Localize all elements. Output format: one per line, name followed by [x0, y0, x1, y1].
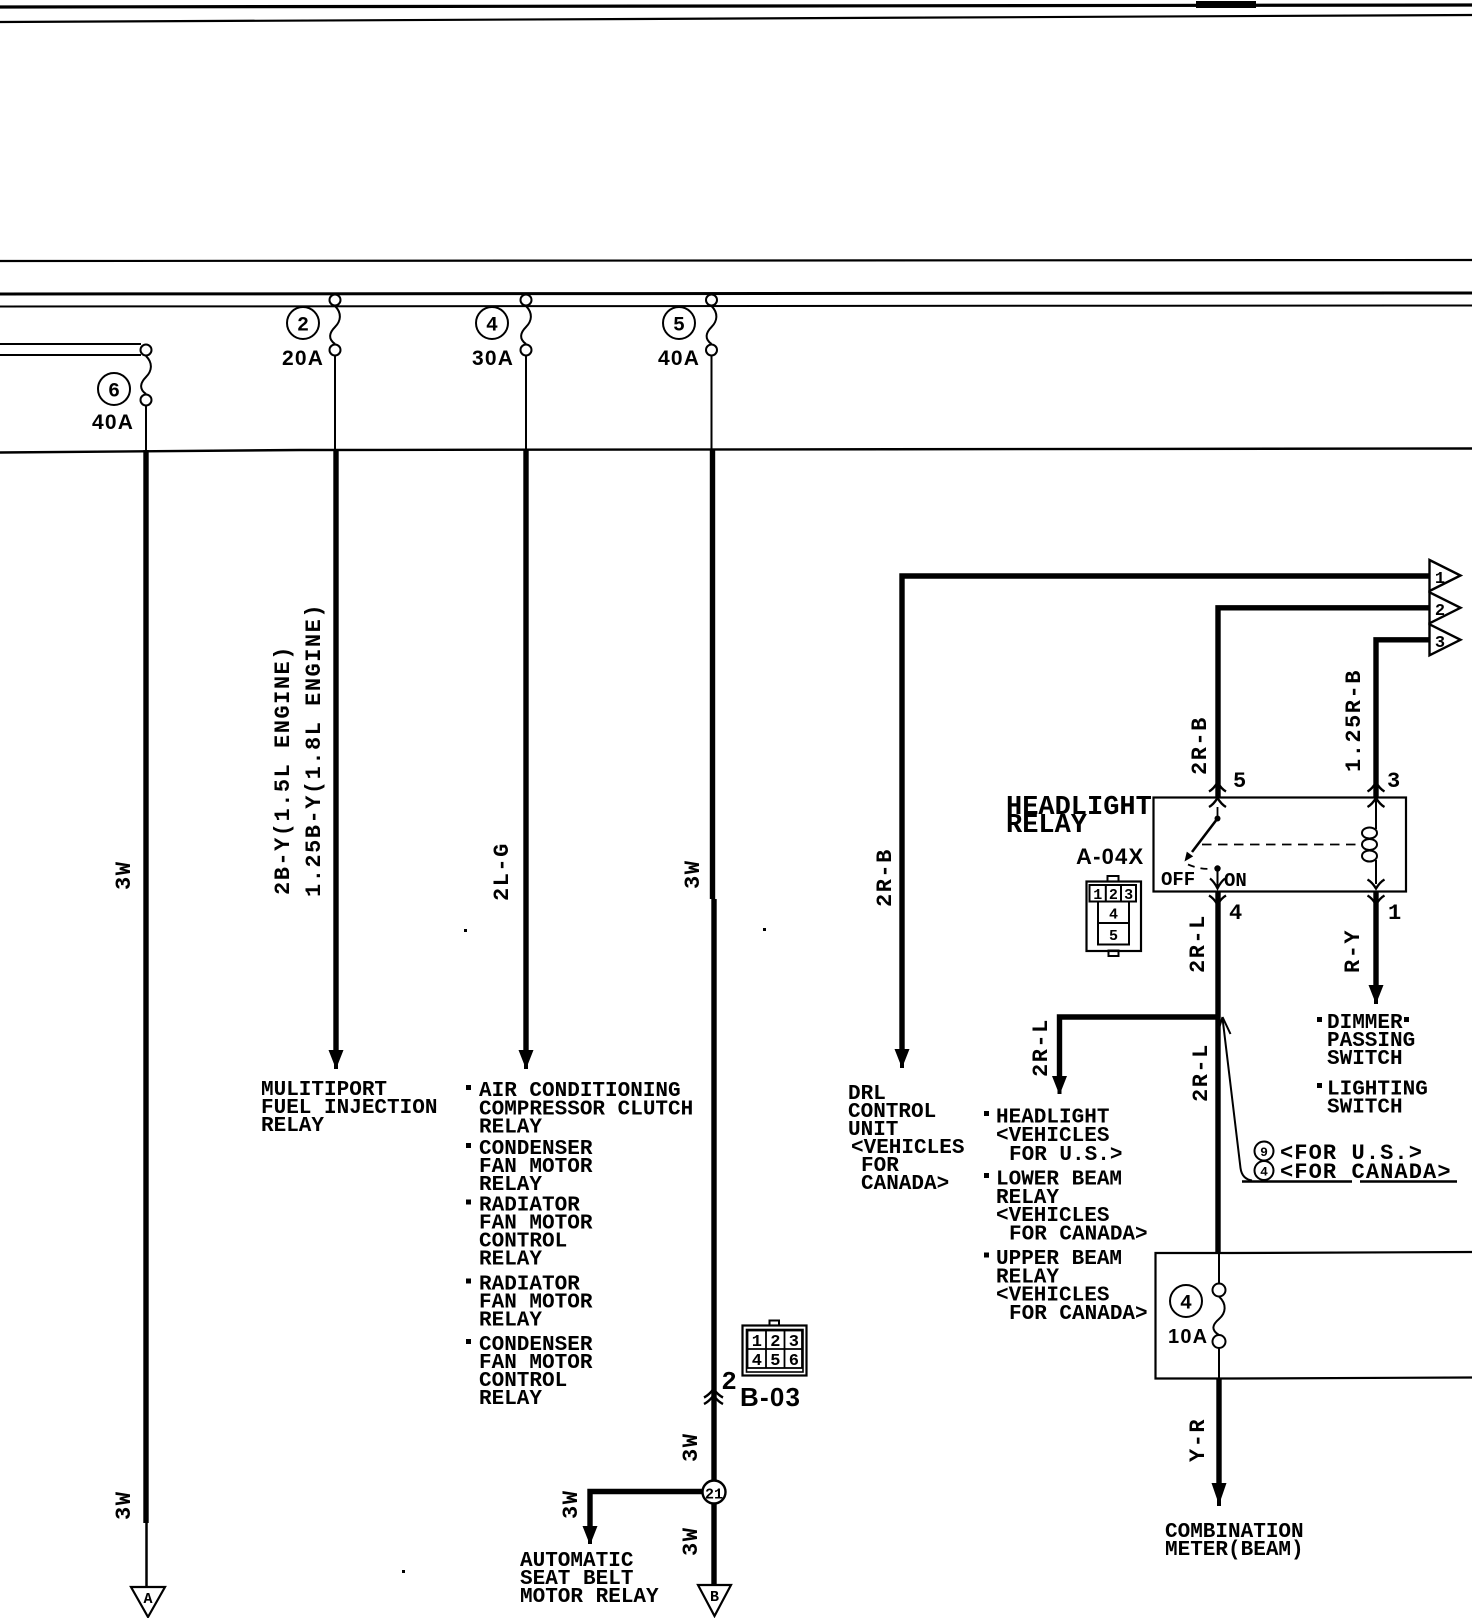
wire DRL arrowhead: [895, 1049, 910, 1068]
svg-text:RELAY: RELAY: [479, 1249, 542, 1272]
note circled 9 FOR U.S.: [1255, 1142, 1274, 1161]
note circled 4 FOR CANADA: [1255, 1161, 1274, 1180]
relay switch common dot: [1215, 816, 1221, 822]
wire R-Y arrowhead: [1369, 985, 1384, 1004]
wire 2R-L branch horizontal: [1060, 1017, 1219, 1077]
node COMBINATION METER (BEAM) label: [1165, 1521, 1304, 1562]
node 21 junction circle: [703, 1481, 726, 1504]
connector B-03 pin box icon: [743, 1321, 807, 1376]
svg-text:FOR CANADA>: FOR CANADA>: [1009, 1303, 1148, 1326]
svg-text:5: 5: [673, 315, 685, 338]
fuse 5 number circle: [663, 307, 695, 339]
fuse 4 number circle: [476, 307, 508, 339]
svg-text:OFF: OFF: [1161, 869, 1195, 891]
relay mechanical link dashed line: [1202, 844, 1360, 846]
wire bus line y261: [0, 260, 1472, 261]
svg-text:4: 4: [1180, 1293, 1192, 1316]
svg-text:3W: 3W: [681, 860, 706, 889]
wire fuse2 lead thin: [334, 356, 336, 451]
relay switch ON contact dot: [1214, 865, 1220, 871]
wire main bus line y294: [0, 293, 1472, 294]
wire branch from node 21 horizontal: [590, 1492, 702, 1528]
svg-text:RELAY: RELAY: [261, 1115, 324, 1138]
svg-text:10A: 10A: [1168, 1326, 1208, 1348]
wire top bus line 1: [0, 5, 1472, 7]
svg-text:2R-L: 2R-L: [1186, 914, 1211, 973]
node HEADLIGHT / LOWER BEAM / UPPER BEAM relay list: [984, 1107, 1148, 1327]
wire fuse6 feed line upper: [0, 343, 141, 345]
wire D vertical 3W upper: [710, 450, 715, 899]
wire 2R-L branch arrowhead: [1052, 1076, 1067, 1094]
fuse 6 number circle: [98, 373, 130, 405]
op: headlight relay box: [1154, 798, 1407, 892]
relay pin 4 terminal chevron: [1209, 896, 1226, 905]
svg-text:2R-B: 2R-B: [873, 848, 898, 907]
node LIGHTING SWITCH label: [1317, 1079, 1428, 1120]
wire 1.25R-B to connector 3: [1376, 640, 1429, 797]
svg-text:3W: 3W: [679, 1433, 704, 1462]
wire fuse4 lead thin: [525, 356, 527, 451]
relay switch ON arm with arrow to pin 4: [1217, 869, 1219, 889]
fuse 2 number circle: [287, 307, 319, 339]
svg-text:2: 2: [721, 1367, 737, 1397]
wire bus line y450: [0, 449, 1472, 453]
node DRL CONTROL UNIT label: [848, 1083, 964, 1196]
svg-text:3: 3: [789, 1333, 799, 1352]
connector A-04X pin box icon: [1087, 876, 1142, 956]
node A destination triangle: [131, 1587, 165, 1617]
svg-text:1.25B-Y(1.8L ENGINE): 1.25B-Y(1.8L ENGINE): [302, 603, 327, 897]
svg-text:2R-L: 2R-L: [1189, 1043, 1214, 1102]
svg-text:RELAY: RELAY: [1006, 811, 1088, 841]
svg-text:1: 1: [1093, 887, 1102, 904]
svg-text:RELAY: RELAY: [479, 1310, 542, 1333]
svg-text:2R-B: 2R-B: [1188, 716, 1213, 775]
svg-text:SWITCH: SWITCH: [1327, 1048, 1403, 1071]
node connector triangle 2: [1430, 592, 1461, 623]
relay pin 5 terminal chevrons: [1209, 783, 1226, 792]
wire 2R-B to connector 2: [1218, 608, 1429, 797]
svg-text:3: 3: [1387, 769, 1400, 794]
svg-text:METER(BEAM): METER(BEAM): [1165, 1539, 1304, 1562]
wire A vertical 3W: [143, 450, 148, 1523]
svg-text:B-03: B-03: [740, 1382, 801, 1412]
wire A lower thin segment: [145, 1523, 148, 1586]
svg-text:<FOR CANADA>: <FOR CANADA>: [1280, 1160, 1452, 1185]
svg-text:4: 4: [486, 315, 498, 338]
fuse 4 symbol: [521, 295, 532, 356]
fuse 5 symbol: [706, 295, 717, 356]
svg-text:Y-R: Y-R: [1186, 1418, 1211, 1462]
wire fuse5 lead thin: [711, 356, 713, 451]
node connector triangle 1: [1430, 560, 1461, 591]
svg-text:CANADA>: CANADA>: [861, 1173, 949, 1196]
svg-text:2R-L: 2R-L: [1029, 1018, 1054, 1077]
wire C vertical 2L-G: [523, 450, 528, 1051]
relay pin 1 terminal chevrons: [1368, 880, 1385, 889]
svg-text:RELAY: RELAY: [479, 1117, 542, 1140]
svg-text:MOTOR RELAY: MOTOR RELAY: [520, 1586, 659, 1609]
svg-text:2B-Y(1.5L ENGINE): 2B-Y(1.5L ENGINE): [271, 645, 296, 895]
svg-text:A: A: [143, 1591, 152, 1608]
wire C arrowhead: [519, 1050, 534, 1069]
connector B-03 inline chevrons: [704, 1389, 723, 1404]
fuse 6 symbol: [141, 345, 152, 406]
wire top bus line 1 thick blob: [1196, 1, 1256, 8]
relay switch arm arrowhead: [1185, 852, 1194, 862]
svg-text:4: 4: [1260, 1165, 1268, 1180]
svg-text:2: 2: [1109, 887, 1118, 904]
wire R-Y from relay pin 1: [1373, 892, 1378, 987]
svg-text:3: 3: [1124, 887, 1133, 904]
svg-text:40A: 40A: [658, 347, 700, 370]
wire fuse6 feed line lower: [0, 354, 141, 356]
node MULITIPORT FUEL INJECTION RELAY label: [261, 1079, 437, 1138]
svg-text:R-Y: R-Y: [1341, 929, 1366, 973]
wire D below node 21: [711, 1503, 716, 1586]
node DIMMER PASSING SWITCH label: [1317, 1012, 1415, 1071]
note underline: [1242, 1180, 1457, 1182]
relay switch lead from pin 5: [1217, 807, 1219, 819]
svg-text:1: 1: [752, 1333, 762, 1352]
fuse 2 symbol: [330, 295, 341, 356]
svg-text:4: 4: [1229, 901, 1242, 926]
fuse box lower right: [1156, 1252, 1472, 1379]
relay switch dashed throw arc: [1188, 865, 1211, 869]
svg-text:3: 3: [1435, 634, 1445, 653]
svg-text:4: 4: [752, 1352, 762, 1371]
speck dots: [464, 929, 467, 932]
wire B vertical 2B-Y: [333, 450, 338, 1051]
wire branch arrowhead: [583, 1526, 598, 1544]
svg-text:SWITCH: SWITCH: [1327, 1097, 1403, 1120]
svg-text:5: 5: [1109, 928, 1118, 945]
svg-text:30A: 30A: [472, 347, 514, 370]
svg-text:9: 9: [1260, 1145, 1268, 1160]
fuse 4b number circle: [1170, 1285, 1202, 1317]
svg-text:5: 5: [1233, 769, 1246, 794]
fuse 4b symbol: [1213, 1253, 1226, 1379]
relay switch arm (OFF position): [1192, 819, 1218, 853]
svg-text:40A: 40A: [92, 411, 134, 434]
svg-text:21: 21: [705, 1487, 723, 1504]
wire D vertical 3W lower: [711, 899, 716, 1482]
wire 2R-L from relay pin 4 down: [1215, 892, 1220, 1254]
svg-text:ON: ON: [1224, 870, 1247, 892]
svg-text:FOR U.S.>: FOR U.S.>: [1009, 1144, 1122, 1167]
wire Y-R below fuse box: [1216, 1379, 1221, 1485]
svg-text:FOR CANADA>: FOR CANADA>: [1009, 1224, 1148, 1247]
svg-text:6: 6: [789, 1352, 799, 1371]
svg-text:1: 1: [1388, 901, 1401, 926]
svg-text:3W: 3W: [112, 861, 137, 890]
svg-text:RELAY: RELAY: [479, 1388, 542, 1411]
svg-text:1: 1: [1435, 570, 1445, 589]
svg-text:3W: 3W: [679, 1527, 704, 1556]
wire 2R-B to connector 1: [902, 576, 1429, 1050]
wire main bus line y306: [0, 306, 1472, 307]
svg-text:4: 4: [1109, 907, 1118, 924]
relay pin 3 terminal chevrons: [1368, 783, 1385, 792]
svg-text:B: B: [710, 1589, 719, 1606]
svg-text:20A: 20A: [282, 347, 324, 370]
wire fuse6 lead thin: [145, 406, 147, 451]
svg-text:1.25R-B: 1.25R-B: [1342, 669, 1367, 772]
svg-text:2: 2: [770, 1333, 780, 1352]
svg-text:2L-G: 2L-G: [490, 842, 515, 901]
svg-text:2: 2: [297, 315, 309, 338]
node air conditioning relay list: [466, 1080, 693, 1411]
wire top bus line 2: [0, 15, 1472, 22]
wire Y-R arrowhead: [1212, 1483, 1227, 1506]
note leader line with arrow: [1223, 1018, 1253, 1181]
node connector triangle 3: [1430, 624, 1461, 655]
svg-text:6: 6: [108, 381, 120, 404]
svg-text:5: 5: [770, 1352, 780, 1371]
node AUTOMATIC SEAT BELT MOTOR RELAY label: [520, 1550, 659, 1609]
relay coil: [1362, 798, 1377, 884]
svg-text:2: 2: [1435, 602, 1445, 621]
svg-text:3W: 3W: [112, 1491, 137, 1520]
svg-text:A-04X: A-04X: [1076, 844, 1144, 869]
wire B arrowhead: [329, 1050, 344, 1069]
svg-text:3W: 3W: [559, 1490, 584, 1519]
node B destination triangle: [698, 1585, 731, 1616]
